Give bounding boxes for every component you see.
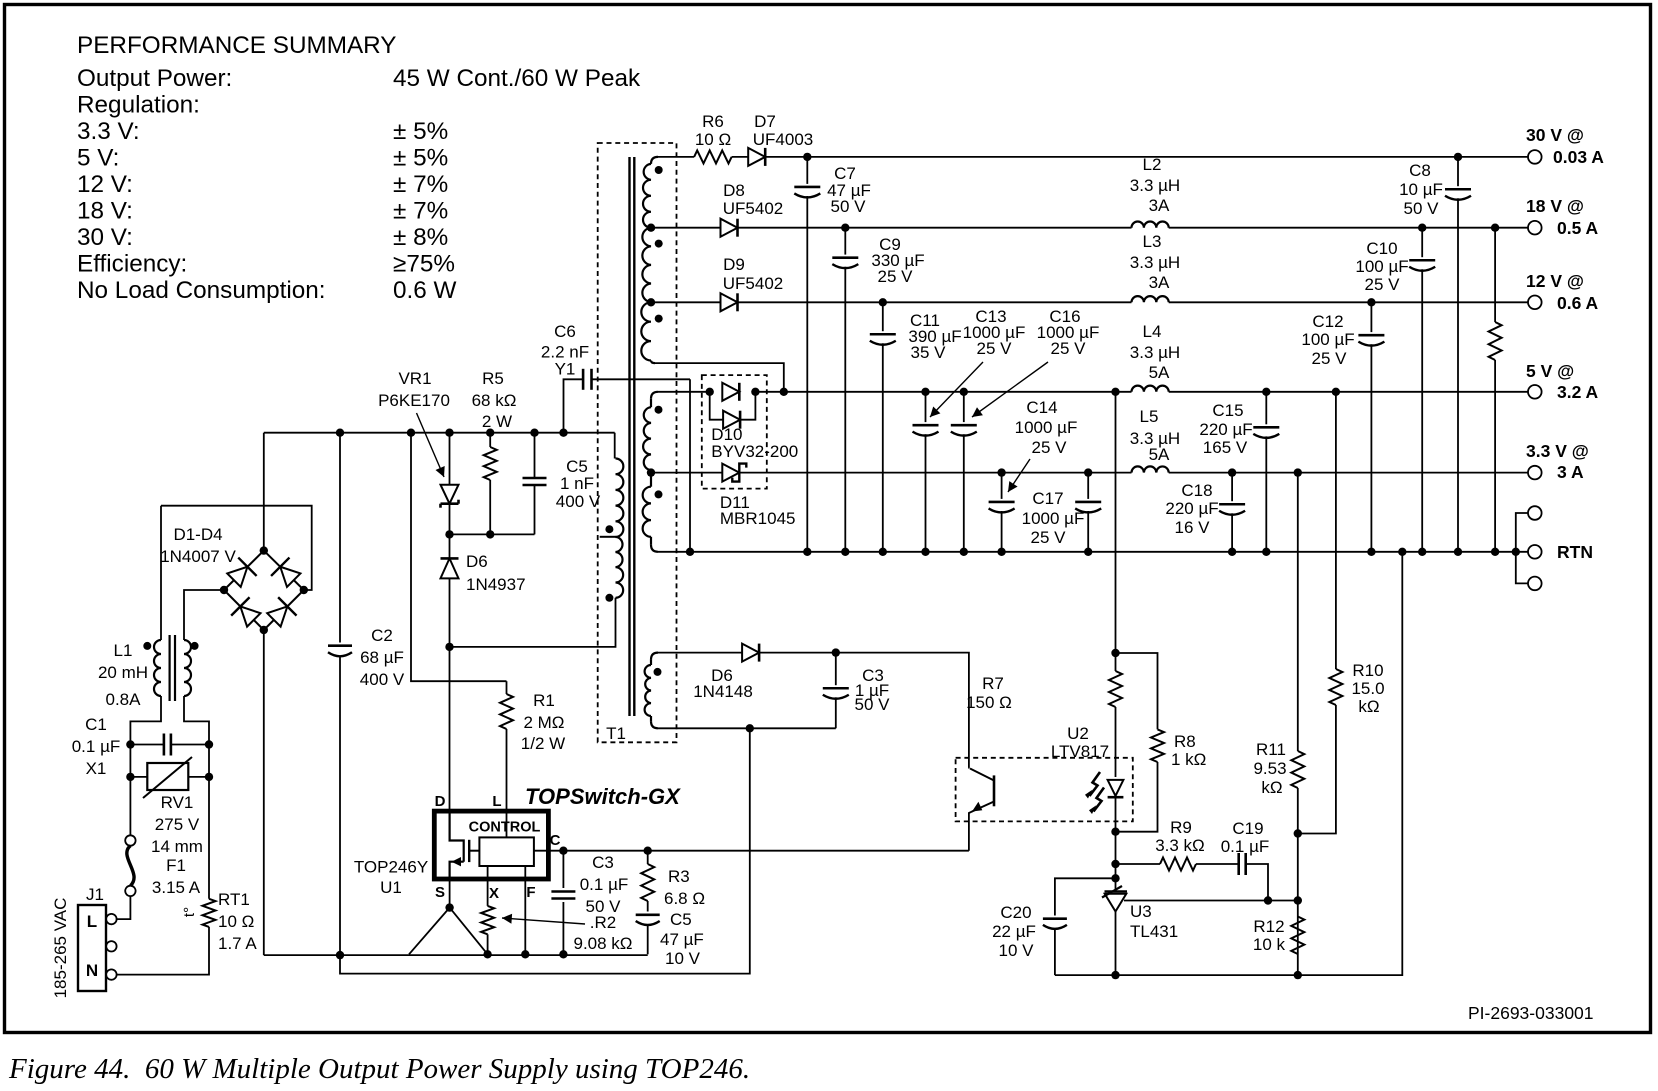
svg-text:TOPSwitch-GX: TOPSwitch-GX [525,784,681,809]
svg-text:68 µF: 68 µF [360,648,404,667]
svg-text:20 mH: 20 mH [98,663,148,682]
S node diagonal to primary return right [450,908,488,955]
w2 phase dot a [655,406,663,414]
node VR1 top [445,429,453,437]
resistor R6 10Ω [694,150,732,163]
svg-text:C5: C5 [670,910,692,929]
capacitor C13 1000uF 25V [925,392,927,422]
svg-text:1 kΩ: 1 kΩ [1171,750,1206,769]
svg-text:10 V: 10 V [999,941,1035,960]
node R11 top [1294,468,1302,476]
connector J1 body [78,905,106,991]
diode D8 UF5402 [721,219,738,237]
svg-text:PI-2693-033001: PI-2693-033001 [1468,1003,1594,1023]
node drain/primary junction [445,643,453,651]
svg-text:C: C [550,832,561,849]
node D10 cathode junction [751,388,759,396]
resistor R10 15.0kΩ [1335,392,1337,669]
30V rail to terminal [765,156,1528,158]
svg-text:MBR1045: MBR1045 [720,509,796,528]
svg-text:3.15 A: 3.15 A [152,878,201,897]
w1 phase dot a [655,166,663,174]
svg-text:0.6 W: 0.6 W [393,277,457,304]
svg-text:R3: R3 [668,867,690,886]
fuse F1 [125,886,135,896]
svg-text:C6: C6 [554,322,576,341]
node F bottom [521,950,529,958]
svg-text:kΩ: kΩ [1358,697,1379,716]
18V tap wire to D8 [651,227,721,229]
svg-text:10 Ω: 10 Ω [695,130,731,149]
svg-text:T1: T1 [606,724,626,743]
svg-text:C18: C18 [1181,481,1212,500]
5V node after D10 [755,391,783,393]
clamp bottom wire VR1-R5-C5 [450,533,535,535]
svg-text:BYV32-200: BYV32-200 [711,442,798,461]
svg-text:3.3 kΩ: 3.3 kΩ [1155,836,1205,855]
svg-text:0.1 µF: 0.1 µF [580,875,629,894]
capacitor C1 0.1uF X1 [130,744,163,746]
node C2 top [336,429,344,437]
svg-text:5A: 5A [1149,363,1170,382]
TL431 ref wire [1124,900,1298,902]
wire R1 feed drop [411,433,507,682]
L1 core lines [169,635,171,701]
svg-text:25 V: 25 V [1312,349,1348,368]
svg-text:C15: C15 [1212,401,1243,420]
svg-text:C17: C17 [1032,489,1063,508]
D10 parallel loop [710,392,723,420]
svg-text:3.3 µH: 3.3 µH [1130,253,1180,272]
5V rail [784,391,1132,393]
primary return wire (bridge- to R3/C5 bottom) [264,954,648,956]
svg-text:± 5%: ± 5% [393,145,448,172]
wire C20 branch [1055,878,1116,915]
svg-text:0.6 A: 0.6 A [1557,293,1599,313]
w1 phase dot b [655,240,663,248]
3.3V rail [739,472,1131,474]
wire L1 left top to bridge right corner [161,506,312,590]
svg-text:J1: J1 [86,885,104,904]
svg-text:R6: R6 [702,112,724,131]
node bleeder bottom [1491,548,1499,556]
svg-text:6.8 Ω: 6.8 Ω [664,889,705,908]
B+ rail wire [264,432,615,434]
resistor R12 10k [1291,917,1304,955]
svg-text:0.5 A: 0.5 A [1557,218,1599,238]
S node diagonal to primary return left [409,908,450,955]
svg-text:Output Power:: Output Power: [77,65,232,92]
capacitor C3 0.1uF 50V on C pin [562,851,564,888]
wire N terminal to RT1 [117,927,209,975]
terminal pin N of J1 [106,969,116,979]
5V rail after L4 [1169,391,1528,393]
opto LED feed from 5V rail [1115,392,1117,653]
3.3V rail after L5 [1169,472,1528,474]
wire L terminal to fuse F1 [117,896,131,919]
svg-text:L4: L4 [1143,322,1162,341]
capacitor C5 47uF 10V below R3 [647,901,649,912]
terminal pin middle of J1 [106,941,116,951]
svg-text:R5: R5 [482,369,504,388]
capacitor C9 330uF 25V [844,228,846,255]
svg-text:3.2 A: 3.2 A [1557,382,1599,402]
svg-text:18 V @: 18 V @ [1526,196,1584,216]
diode D10b BYV32-200 [723,411,740,429]
svg-text:400 V: 400 V [360,670,405,689]
capacitor C11 390uF 35V [882,302,884,331]
diode D7 UF4003 [748,148,765,166]
node C20 branch [1111,874,1119,882]
node R10/R11 bottom junction [1294,829,1302,837]
node R3 top [644,847,652,855]
5V winding lead to D10 [658,391,710,393]
svg-text:X: X [489,885,499,902]
L pin wire into box [506,811,508,837]
svg-text:C12: C12 [1312,312,1343,331]
svg-text:3.3 µH: 3.3 µH [1130,176,1180,195]
w2 phase dot b [655,490,663,498]
R8 branch wire [1116,653,1158,729]
bridge diode D3 (bottom-left edge) [231,597,263,629]
inductor L4 3.3uH 5A [1132,386,1169,392]
node RV1 left [126,773,134,781]
diode D9 UF5402 [721,293,738,311]
node opto feed top [1111,388,1119,396]
svg-text:± 7%: ± 7% [393,198,448,225]
svg-text:t°: t° [181,907,198,917]
30V rail: winding to R6 [658,156,694,158]
resistor R8 1kΩ [1151,729,1164,762]
node C14 top [997,468,1005,476]
resistor R9 3.3kΩ [1116,863,1161,865]
transient suppressor VR1 P6KE170 [449,433,451,485]
svg-text:50 V: 50 V [586,897,622,916]
svg-text:± 7%: ± 7% [393,171,448,198]
12V rail [738,301,1132,303]
L1 phase dots [143,642,151,650]
wire C6 to RTN bus [689,379,691,552]
diode D6 1N4148 [742,644,759,662]
resistor R11 9.53kΩ [1297,473,1299,751]
svg-text:UF5402: UF5402 [723,274,783,293]
node bleeder top [1491,224,1499,232]
node C8 bottom [1454,548,1462,556]
optocoupler U2 dashed outline [956,758,1133,822]
node C19/ref junction [1264,896,1272,904]
svg-text:275 V: 275 V [155,815,200,834]
svg-text:220 µF: 220 µF [1165,499,1218,518]
svg-text:15.0: 15.0 [1351,679,1384,698]
svg-text:CONTROL: CONTROL [469,820,541,836]
node RTN bracket [1512,548,1520,556]
transformer T1 dashed outline [598,143,677,742]
svg-text:L2: L2 [1143,155,1162,174]
secondary winding 2 (5/3.3V) of T1 [651,392,658,399]
node C3(1uF) top [832,648,840,656]
wire C19 to ref line [1246,864,1268,901]
resistor R5 68k 2W [489,433,491,447]
diode D11 MBR1045 schottky [722,464,739,482]
svg-text:10 V: 10 V [665,949,701,968]
RTN bus wire [658,551,1528,553]
svg-text:12 V @: 12 V @ [1526,271,1584,291]
wire primary bottom to drain node [450,598,616,647]
bias phase dot [654,668,662,676]
svg-text:45 W Cont./60 W Peak: 45 W Cont./60 W Peak [393,65,641,92]
inductor L5 3.3uH 5A [1132,466,1169,472]
svg-text:C10: C10 [1366,239,1397,258]
bridge diode D1 (left-top edge) [225,558,257,590]
svg-text:TL431: TL431 [1130,922,1178,941]
svg-text:5 V @: 5 V @ [1526,361,1574,381]
svg-text:1N4007 V: 1N4007 V [160,547,236,566]
node C11 bottom [879,548,887,556]
bias winding top wire to D6 [658,652,742,654]
resistor R1 2 MΩ 1/2 W [506,681,508,694]
svg-text:100 µF: 100 µF [1355,257,1408,276]
w1 tap node 18V [647,224,655,232]
svg-text:C8: C8 [1409,161,1431,180]
varistor RV1 275V 14mm [130,776,147,778]
svg-text:0.8A: 0.8A [106,690,142,709]
svg-text:D6: D6 [466,552,488,571]
svg-text:50 V: 50 V [855,695,891,714]
svg-text:25 V: 25 V [1365,275,1401,294]
svg-text:3.3 V @: 3.3 V @ [1526,441,1589,461]
svg-text:185-265 VAC: 185-265 VAC [51,898,70,999]
svg-text:C19: C19 [1232,819,1263,838]
capacitor C5 1nF 400V (clamp) [534,433,536,479]
svg-text:3A: 3A [1149,196,1170,215]
node C18 top [1228,468,1236,476]
wire F1 to C1/RV1 left node [129,745,131,836]
node R2 bottom [483,950,491,958]
svg-text:25 V: 25 V [1051,339,1087,358]
svg-text:C2: C2 [371,626,393,645]
svg-text:L5: L5 [1140,407,1159,426]
svg-text:Figure 44. 60 W Multiple Outp: Figure 44. 60 W Multiple Output Power Su… [8,1053,750,1085]
capacitor C10 100uF 25V [1421,228,1423,258]
secondary winding 1 (30/18/12V) of T1 [651,157,658,164]
svg-text:35 V: 35 V [911,343,947,362]
node C12 top [1367,298,1375,306]
node C1 right [205,740,213,748]
svg-text:220 µF: 220 µF [1199,420,1252,439]
capacitor C19 0.1uF [1237,853,1240,875]
svg-text:3A: 3A [1149,273,1170,292]
12V rail after L3 [1169,301,1528,303]
svg-text:± 8%: ± 8% [393,224,448,251]
svg-text:1000 µF: 1000 µF [1015,418,1078,437]
thermistor RT1 [203,899,216,927]
svg-text:25 V: 25 V [1032,438,1068,457]
capacitor C3 1uF 50V (bias) [835,653,837,686]
wire R6 to D7 [732,156,749,158]
node feedback ground drop [1398,548,1406,556]
w1 bottom lead to 5V node [651,361,655,364]
primary phase dot upper [605,525,613,533]
svg-text:2 MΩ: 2 MΩ [523,713,564,732]
svg-text:F1: F1 [166,856,186,875]
svg-text:5A: 5A [1149,445,1170,464]
svg-text:R8: R8 [1174,732,1196,751]
node C15 bottom [1262,548,1270,556]
bridge diode D4 (bottom-right edge) [265,597,297,629]
node C7 bottom [803,548,811,556]
svg-text:P6KE170: P6KE170 [378,391,450,410]
node C3 bottom [559,950,567,958]
primary phase dot lower [605,594,613,602]
svg-text:RTN: RTN [1557,542,1593,562]
capacitor C14 1000uF 25V [1001,473,1003,499]
S pin wire [449,879,451,908]
svg-text:10 k: 10 k [1253,935,1286,954]
resistor R3 6.8Ω [647,851,649,864]
output terminal RTN upper [1528,506,1542,520]
svg-text:68 kΩ: 68 kΩ [472,391,517,410]
dashed box around D10/D11 [702,375,767,489]
svg-text:16 V: 16 V [1175,518,1211,537]
node D10 anode junction [706,388,714,396]
svg-text:25 V: 25 V [977,339,1013,358]
capacitor C2 68uF 400V [339,433,341,643]
node C14 bottom [997,548,1005,556]
output terminal 30V [1528,150,1542,164]
svg-text:R11: R11 [1256,740,1286,759]
svg-text:1N4937: 1N4937 [466,575,526,594]
svg-text:10 µF: 10 µF [1399,180,1443,199]
primary mid stub [600,536,616,538]
svg-text:9.53: 9.53 [1253,759,1286,778]
node C13 bottom [921,548,929,556]
internal MOSFET of U1 [450,811,464,862]
svg-text:3 A: 3 A [1557,462,1584,482]
node C18 bottom [1228,548,1236,556]
svg-text:1 nF: 1 nF [560,474,594,493]
opto LED [1108,780,1124,796]
svg-text:Efficiency:: Efficiency: [77,251,187,278]
common mode choke L1 left winding [154,640,161,696]
svg-text:9.08 kΩ: 9.08 kΩ [573,934,632,953]
wire bridge top to B+ rail [263,433,265,551]
bleeder resistor on 18V rail [1494,228,1496,322]
w1 tap node 12V [647,298,655,306]
svg-text:L3: L3 [1143,232,1162,251]
svg-text:RT1: RT1 [218,890,250,909]
svg-text:L: L [87,912,97,931]
T1 core lines [628,157,630,716]
node C13 top [921,388,929,396]
svg-text:3.3 V:: 3.3 V: [77,118,140,145]
capacitor C6 2.2nF Y1 [564,379,583,432]
svg-text:12 V:: 12 V: [77,171,133,198]
svg-text:RV1: RV1 [161,793,194,812]
w2 tap node 3.3V [647,468,655,476]
svg-text:47 µF: 47 µF [660,930,704,949]
svg-text:U3: U3 [1130,902,1152,921]
12V tap wire to D9 [651,301,721,303]
svg-text:1/2 W: 1/2 W [521,734,565,753]
svg-text:0.03 A: 0.03 A [1553,147,1604,167]
node R5 top [486,429,494,437]
18V rail [738,227,1132,229]
node R12 bottom [1294,971,1302,979]
svg-text:VR1: VR1 [398,369,431,388]
capacitor C20 22uF 10V [1043,917,1067,920]
w1 phase dot c [655,315,663,323]
opto emitter wire to C pin line [969,811,973,850]
svg-text:No Load Consumption:: No Load Consumption: [77,277,326,304]
node C6 branch [559,429,567,437]
svg-text:± 5%: ± 5% [393,118,448,145]
svg-text:R1: R1 [533,691,555,710]
node C6-drop on bus [686,548,694,556]
svg-text:L1: L1 [114,641,133,660]
node C9 top [841,224,849,232]
bias winding bottom wire [658,727,836,729]
output terminal RTN [1528,545,1542,559]
node TL431 anode bottom [1111,971,1119,979]
svg-text:R7: R7 [982,674,1004,693]
svg-text:D7: D7 [754,112,776,131]
svg-text:D: D [435,793,446,810]
RTN bracket wires [1516,513,1528,583]
node C15 top [1262,388,1270,396]
svg-text:25 V: 25 V [1031,528,1067,547]
svg-text:22 µF: 22 µF [992,922,1036,941]
TOPSwitch-GX IC U1 body [434,811,548,879]
svg-text:30 V:: 30 V: [77,224,133,251]
svg-text:L: L [492,793,501,810]
wire R9 to C19 [1196,863,1238,865]
node C12 bottom [1367,548,1375,556]
node C8 top [1454,153,1462,161]
common mode choke L1 right winding [184,640,191,696]
capacitor C17 1000uF 25V [1087,473,1089,499]
capacitor C8 10uF 50V [1457,157,1459,186]
diode D6 1N4937 [449,534,451,558]
svg-text:R9: R9 [1170,818,1192,837]
svg-text:TOP246Y: TOP246Y [354,858,428,877]
node C2 bottom [336,951,344,959]
node C11 top [879,298,887,306]
wire bridge bottom to primary return line [263,630,265,955]
svg-text:14 mm: 14 mm [151,837,203,856]
output terminal 12V [1528,296,1542,310]
svg-text:25 V: 25 V [878,267,914,286]
svg-text:kΩ: kΩ [1261,778,1282,797]
svg-text:U1: U1 [380,878,402,897]
svg-text:R10: R10 [1352,661,1383,680]
svg-text:D9: D9 [723,255,745,274]
bridge rectifier D1-D4 diamond [224,551,264,590]
svg-text:165 V: 165 V [1203,438,1248,457]
node C1 left [126,740,134,748]
wire LED cathode to R9 node [1115,832,1117,892]
control block inner rect [479,837,534,866]
svg-text:LTV817: LTV817 [1051,742,1109,761]
svg-text:C20: C20 [1000,903,1031,922]
svg-text:50 V: 50 V [831,197,867,216]
resistor R7 150Ω [1115,653,1117,671]
F pin wire [524,866,526,954]
svg-text:Regulation:: Regulation: [77,92,200,119]
node C5 top [530,429,538,437]
18V rail after L2 [1169,227,1528,229]
resistor R2 9.08k on X pin [481,906,494,934]
svg-text:PERFORMANCE SUMMARY: PERFORMANCE SUMMARY [77,32,397,59]
